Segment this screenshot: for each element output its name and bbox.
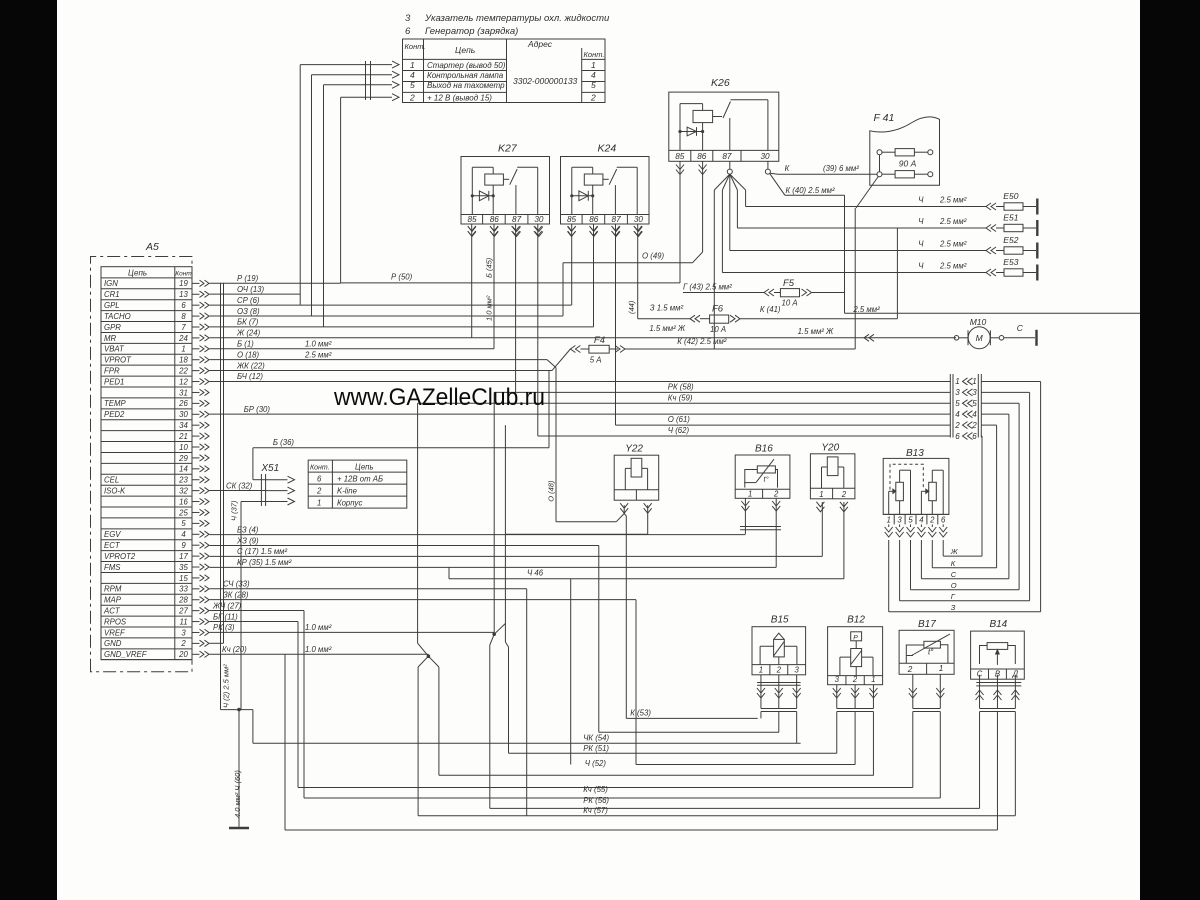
A5 row 7 GPR xyxy=(101,321,192,323)
wire RK(51) to B12.3 xyxy=(509,752,837,754)
svg-text:ОЧ (13): ОЧ (13) xyxy=(237,285,264,294)
svg-text:6: 6 xyxy=(941,516,946,525)
svg-text:Конт.: Конт. xyxy=(405,42,426,51)
connector tick marks top table xyxy=(365,61,367,100)
svg-text:Цепь: Цепь xyxy=(355,463,374,472)
injector Y20 plunger xyxy=(827,457,838,476)
wire to B14.B xyxy=(285,829,997,831)
svg-text:VPROT: VPROT xyxy=(104,356,132,365)
resistor E51 xyxy=(986,225,991,232)
svg-text:1.0 мм²: 1.0 мм² xyxy=(305,645,332,654)
fuse box F41 xyxy=(870,117,940,186)
svg-text:PED2: PED2 xyxy=(104,410,125,419)
wire BR (30) to connector pin4 xyxy=(210,413,951,415)
svg-text:1.0 мм²: 1.0 мм² xyxy=(485,295,494,321)
svg-text:2: 2 xyxy=(971,421,977,430)
svg-text:5: 5 xyxy=(972,399,977,408)
wire KCh(59) xyxy=(418,402,951,404)
wire fan to E50 xyxy=(745,190,747,207)
relay K24 switch contact xyxy=(603,178,609,180)
svg-text:2: 2 xyxy=(852,675,858,684)
svg-text:86: 86 xyxy=(589,215,599,224)
svg-text:K26: K26 xyxy=(711,77,730,89)
fuse F6 xyxy=(710,315,729,323)
svg-text:Корпус: Корпус xyxy=(337,499,362,508)
A5 row 4 EGV xyxy=(101,528,192,530)
relay K27 coil xyxy=(485,174,504,185)
wire G(43) to F5 xyxy=(683,292,764,294)
sensor B16 pin arrows xyxy=(741,501,749,506)
wire node leg to B14.C xyxy=(490,634,494,645)
ground symbol xyxy=(229,827,249,830)
wire Y22.2 drop xyxy=(647,505,649,534)
svg-text:B12: B12 xyxy=(847,615,865,626)
svg-text:10: 10 xyxy=(179,443,188,452)
svg-text:Кч (57): Кч (57) xyxy=(583,806,608,815)
A5 row 6 GPL xyxy=(101,299,192,301)
wire to right bar y313 xyxy=(845,312,1141,314)
svg-text:Р: Р xyxy=(853,635,858,642)
A5 row 16 blank xyxy=(101,495,192,497)
wire Ch(62) xyxy=(538,435,951,437)
sensor B14 box xyxy=(971,631,1025,679)
wire B13.1 to riser Z xyxy=(888,540,890,612)
wire OZ (8) to relay K26.86 net xyxy=(210,315,564,317)
X51 wires and arrows xyxy=(253,479,266,481)
wire SCh drop to B14.D wire xyxy=(526,589,528,816)
svg-text:1.0 мм²: 1.0 мм² xyxy=(305,340,332,349)
A5 row 26 TEMP xyxy=(101,397,192,399)
A5 row 32 ISO-K xyxy=(101,484,192,486)
svg-text:СР (6): СР (6) xyxy=(237,296,260,305)
svg-text:10 А: 10 А xyxy=(782,299,798,308)
injector Y20 pin arrows xyxy=(816,502,824,507)
ground junction xyxy=(237,708,241,712)
svg-text:B15: B15 xyxy=(771,615,789,626)
wire S (17) to Y20.1 xyxy=(210,555,823,557)
wire P(50) horizontal xyxy=(341,282,680,284)
svg-text:TEMP: TEMP xyxy=(104,399,126,408)
svg-text:B14: B14 xyxy=(989,619,1007,630)
svg-text:K24: K24 xyxy=(598,143,617,155)
relay K26 pin85 arrow xyxy=(676,165,684,170)
svg-text:Кч (59): Кч (59) xyxy=(668,394,693,403)
svg-text:ACT: ACT xyxy=(103,607,121,616)
relay K24 diode xyxy=(572,195,593,197)
svg-text:4: 4 xyxy=(919,516,924,525)
svg-text:Ж (24): Ж (24) xyxy=(236,329,261,338)
wire K24.85 drop to SR(6) xyxy=(571,224,573,305)
right connector outgoing wires xyxy=(981,380,1040,382)
node K26 pin 87 xyxy=(729,161,731,169)
wire BK (7) to K24.86 xyxy=(210,326,594,328)
B13 internal wires left xyxy=(888,491,890,514)
svg-text:12: 12 xyxy=(179,377,188,386)
A5 row 11 RPOS xyxy=(101,615,192,617)
svg-text:Р (50): Р (50) xyxy=(391,273,413,282)
ground lead wire xyxy=(238,710,240,827)
nested riser 1 xyxy=(1040,381,1042,611)
X51 table xyxy=(308,460,407,508)
svg-text:B16: B16 xyxy=(755,444,773,455)
A5 row 21 blank xyxy=(101,430,192,432)
wire Y20.2 drop xyxy=(843,502,845,579)
junction RK(3) node xyxy=(492,632,496,636)
wire Y22.2 horizontal xyxy=(505,533,647,535)
wire ZK (28) to B12.2 xyxy=(210,599,637,601)
wire K27.85 drop to Zh(24) xyxy=(471,224,473,338)
relay K24 coil xyxy=(584,174,603,185)
wire into top table row 5 xyxy=(324,84,393,86)
wire K(39) from K26.30 to F41 xyxy=(770,173,778,174)
wire XZ drop to B15.2 xyxy=(598,545,600,732)
nested riser 6 xyxy=(981,436,983,556)
injector Y22 pin arrows xyxy=(620,503,628,508)
svg-text:19: 19 xyxy=(179,279,188,288)
wire B(36) xyxy=(253,447,549,449)
svg-text:7: 7 xyxy=(181,323,186,332)
svg-text:1: 1 xyxy=(759,665,763,674)
sensor B16 thermistor xyxy=(757,466,775,473)
wire F41 to K42 riser xyxy=(856,177,878,209)
sensor B15 pressure symbol xyxy=(774,633,785,639)
wire B16.1 drop xyxy=(744,498,746,534)
svg-text:1: 1 xyxy=(955,377,959,386)
K26.87 fan wires xyxy=(714,174,730,190)
vertical wire table row5 to BK(7) xyxy=(323,85,325,327)
wire O48 horizontal to Y22.1 xyxy=(556,521,616,523)
svg-text:+ 12 В (вывод 15): + 12 В (вывод 15) xyxy=(427,93,492,102)
injector Y20 box xyxy=(810,454,855,499)
svg-text:33: 33 xyxy=(179,585,188,594)
vertical wire table row2 to P(50) xyxy=(340,97,342,283)
svg-text:Ч 46: Ч 46 xyxy=(527,569,544,578)
svg-text:5: 5 xyxy=(955,399,960,408)
svg-text:8: 8 xyxy=(181,312,186,321)
A5 row 25 blank xyxy=(101,506,192,508)
A5 row 5 blank xyxy=(101,517,192,519)
svg-text:М: М xyxy=(976,333,984,343)
wire RK58 riser from RK3 node xyxy=(493,392,495,634)
A5 row 33 RPM xyxy=(101,582,192,584)
svg-text:2.5 мм²: 2.5 мм² xyxy=(852,305,880,314)
svg-text:E50: E50 xyxy=(1003,191,1018,201)
wire fan to E52 xyxy=(729,190,731,251)
fuse F41 lower xyxy=(877,172,882,177)
wire O(48) drop from O(18) xyxy=(555,368,557,522)
svg-text:4: 4 xyxy=(181,530,186,539)
svg-text:1: 1 xyxy=(871,675,875,684)
svg-text:ХЗ (9): ХЗ (9) xyxy=(236,536,259,545)
wire ZK drop to B12.2 xyxy=(635,600,637,765)
svg-text:1: 1 xyxy=(972,377,976,386)
sensor B17 box xyxy=(899,630,954,674)
svg-text:30: 30 xyxy=(534,215,544,224)
wire Y20.1 drop xyxy=(821,502,823,556)
svg-text:FPR: FPR xyxy=(104,366,120,375)
wire B36 drop to X51 pin6 xyxy=(252,448,254,480)
wire K24.30 drop to Z(44) fuse F6 xyxy=(637,224,639,319)
nested riser 3 xyxy=(1029,392,1031,600)
right connector body xyxy=(949,374,951,438)
wire Y22.1 drop to K(53) xyxy=(623,505,625,513)
svg-text:35: 35 xyxy=(179,563,188,572)
svg-text:t°: t° xyxy=(764,475,769,484)
svg-text:FMS: FMS xyxy=(104,563,121,572)
svg-text:1: 1 xyxy=(181,345,185,354)
svg-text:6: 6 xyxy=(972,432,977,441)
A5 row 1 VBAT xyxy=(101,342,192,344)
A5 row 18 VPROT xyxy=(101,353,192,355)
wire K(42) F4 to F41 xyxy=(625,348,855,350)
svg-text:5: 5 xyxy=(410,80,415,90)
B13 internal wires right xyxy=(920,491,922,514)
svg-text:Ж: Ж xyxy=(950,547,959,556)
X51 connector ticks xyxy=(260,474,262,506)
svg-text:(39) 6 мм²: (39) 6 мм² xyxy=(823,164,859,173)
relay K24 box xyxy=(561,157,650,225)
relay K27 pin 85 arrow xyxy=(468,227,476,232)
svg-text:A5: A5 xyxy=(145,241,159,253)
svg-text:26: 26 xyxy=(178,399,188,408)
terminal bar E51 xyxy=(1036,220,1038,236)
svg-text:ISO-K: ISO-K xyxy=(104,487,126,496)
svg-text:Конт.: Конт. xyxy=(584,50,605,59)
svg-text:1: 1 xyxy=(748,490,752,499)
wire Ch(52) to B12.2 xyxy=(636,764,855,766)
wire into top table row 2 xyxy=(341,96,392,98)
sensor B17 pin wires xyxy=(912,674,914,708)
svg-text:3: 3 xyxy=(972,388,977,397)
svg-text:www.GAZelleClub.ru: www.GAZelleClub.ru xyxy=(333,384,545,411)
svg-text:MAP: MAP xyxy=(104,596,122,605)
A5 table bottom line xyxy=(101,659,192,661)
wire KR (35) to B16.2 xyxy=(210,566,777,568)
connector A5 outer box xyxy=(91,257,193,672)
terminal bar E53 xyxy=(1036,265,1038,281)
sensor B15 pin wires xyxy=(760,675,762,709)
relay K26 box xyxy=(669,92,779,161)
wire B13.6 to riser Zh xyxy=(942,540,944,556)
svg-text:30: 30 xyxy=(760,152,770,161)
svg-text:3: 3 xyxy=(897,516,902,525)
A5 row 12 PED1 xyxy=(101,375,192,377)
svg-text:IGN: IGN xyxy=(104,279,118,288)
svg-text:GPL: GPL xyxy=(104,301,120,310)
svg-text:28: 28 xyxy=(178,596,188,605)
svg-text:1: 1 xyxy=(887,516,891,525)
wire BG drop to B17.2 xyxy=(297,621,299,787)
svg-text:БР (30): БР (30) xyxy=(244,405,271,414)
wire X leg to B12.1 xyxy=(438,667,440,775)
svg-text:E52: E52 xyxy=(1003,235,1018,245)
wire O(49) horizontal xyxy=(563,262,693,264)
nested riser 2 xyxy=(996,425,998,568)
wire ChK(54) to B15.3 xyxy=(253,742,801,744)
svg-text:TACHO: TACHO xyxy=(104,312,131,321)
svg-text:2.5 мм²: 2.5 мм² xyxy=(304,350,332,359)
wire RK(56) to B17.1 xyxy=(304,797,940,799)
relay K27 switch contact xyxy=(503,178,509,180)
svg-text:23: 23 xyxy=(178,476,188,485)
svg-text:СК (32): СК (32) xyxy=(226,481,253,490)
svg-text:2: 2 xyxy=(773,490,779,499)
wire fan to K(42) xyxy=(713,190,715,349)
A5 row 10 blank xyxy=(101,441,192,443)
svg-text:86: 86 xyxy=(697,152,707,161)
svg-text:5: 5 xyxy=(181,519,186,528)
wire K(40) from K26.30 xyxy=(770,174,785,196)
svg-text:С (17) 1.5 мм²: С (17) 1.5 мм² xyxy=(237,547,288,556)
svg-text:22: 22 xyxy=(178,366,188,375)
wire F5 to K40 drop xyxy=(812,292,845,294)
svg-text:Кч (55): Кч (55) xyxy=(583,785,608,794)
svg-text:2.5 мм²: 2.5 мм² xyxy=(939,262,967,271)
resistor E53 xyxy=(986,269,991,276)
svg-text:30: 30 xyxy=(634,215,644,224)
svg-text:Ч: Ч xyxy=(918,262,924,271)
resistor E50 xyxy=(986,203,991,210)
wire B13.2 to riser K xyxy=(931,540,933,568)
svg-text:2: 2 xyxy=(907,665,913,674)
svg-text:Б (1): Б (1) xyxy=(237,340,254,349)
svg-text:Ч: Ч xyxy=(918,240,924,249)
sensor B14 potentiometer xyxy=(987,643,1008,650)
svg-text:Ч: Ч xyxy=(918,217,924,226)
wire BCh (12) to connector pin1 xyxy=(210,380,951,382)
svg-text:85: 85 xyxy=(675,152,685,161)
wire K27.30 drop to Ch(62) xyxy=(537,224,539,436)
terminal bar C xyxy=(1035,330,1037,346)
wire KCh (20) xyxy=(210,653,429,655)
wire BG (11) to B17.2 xyxy=(210,620,299,622)
svg-text:2: 2 xyxy=(316,487,322,496)
svg-text:10 А: 10 А xyxy=(710,325,726,334)
wire B (1) to K27.86 xyxy=(210,348,495,350)
relay K27 pin 30 arrow xyxy=(535,227,543,232)
svg-text:GPR: GPR xyxy=(104,323,121,332)
svg-text:25: 25 xyxy=(178,508,188,517)
svg-text:2: 2 xyxy=(929,516,935,525)
A5 row 29 blank xyxy=(101,451,192,453)
wire K26.85 drop to P(50) xyxy=(679,161,681,283)
svg-text:14: 14 xyxy=(179,465,188,474)
svg-text:ОЗ (8): ОЗ (8) xyxy=(237,307,260,316)
svg-text:GND_VREF: GND_VREF xyxy=(104,650,148,659)
nested riser 4 xyxy=(1008,414,1010,579)
svg-text:РК (51): РК (51) xyxy=(583,744,609,753)
B13 resistor right xyxy=(929,482,937,500)
svg-text:4.0 мм² Ч (60): 4.0 мм² Ч (60) xyxy=(233,770,242,818)
svg-text:MR: MR xyxy=(104,334,116,343)
svg-text:24: 24 xyxy=(178,334,188,343)
sensor B12 P box xyxy=(851,632,862,641)
svg-text:О: О xyxy=(951,581,957,590)
sensor B12 box xyxy=(828,627,883,685)
terminal bar E52 xyxy=(1036,243,1038,259)
svg-text:2: 2 xyxy=(590,92,596,102)
injector Y22 plunger xyxy=(631,458,642,477)
svg-text:Ч (52): Ч (52) xyxy=(585,759,607,768)
wire SCh (33) to B14.D xyxy=(210,588,527,590)
sensor B17 thermistor xyxy=(924,641,941,648)
svg-text:К: К xyxy=(951,559,956,568)
wire F41 terminals link xyxy=(879,155,881,172)
svg-text:E51: E51 xyxy=(1003,213,1018,223)
svg-text:3302-000000133: 3302-000000133 xyxy=(513,76,578,86)
wire K24.86 drop to BK(7) xyxy=(593,224,595,327)
sensor B16 box xyxy=(735,455,790,498)
relay K24 coil top link xyxy=(572,166,593,168)
svg-text:6: 6 xyxy=(181,301,186,310)
svg-text:ЗК (28): ЗК (28) xyxy=(223,590,249,599)
svg-text:86: 86 xyxy=(490,215,500,224)
wire OZ(8) riser xyxy=(562,263,564,316)
svg-text:B17: B17 xyxy=(918,619,936,630)
wire to B12.1 xyxy=(439,774,874,776)
wire K27.85 arrow xyxy=(468,226,476,231)
A5 row 20 GND_VREF xyxy=(101,648,192,650)
svg-text:87: 87 xyxy=(612,215,622,224)
wire KCh59 drop into X junction xyxy=(417,403,419,643)
relay K24 pin 85 arrow xyxy=(568,227,576,232)
svg-text:2: 2 xyxy=(180,639,186,648)
wire XZ (9) to B15.2 xyxy=(210,544,599,546)
svg-text:Стартер (вывод 50): Стартер (вывод 50) xyxy=(427,61,506,70)
svg-text:Цепь: Цепь xyxy=(455,45,475,55)
svg-text:F5: F5 xyxy=(783,278,795,289)
A5 row 31 blank xyxy=(101,386,192,388)
svg-text:29: 29 xyxy=(178,454,188,463)
relay K27 pin 87 arrow xyxy=(513,227,521,232)
svg-text:ЧК (54): ЧК (54) xyxy=(583,734,609,743)
svg-text:БЧ (12): БЧ (12) xyxy=(237,372,263,381)
wire B13.3 to riser G xyxy=(899,540,901,601)
svg-text:Ч (37): Ч (37) xyxy=(230,500,239,521)
svg-text:13: 13 xyxy=(179,290,188,299)
A5 row 8 TACHO xyxy=(101,310,192,312)
svg-text:90 А: 90 А xyxy=(899,159,917,169)
wire K27.86 drop to B(1) xyxy=(493,224,495,349)
svg-text:Б (36): Б (36) xyxy=(273,438,295,447)
svg-text:6: 6 xyxy=(955,432,960,441)
wire M10 to C terminal xyxy=(1004,337,1035,339)
wire ZhK (22) xyxy=(210,370,553,372)
svg-text:3: 3 xyxy=(794,665,799,674)
svg-text:Адрес: Адрес xyxy=(527,39,553,49)
nested riser 5 xyxy=(1018,403,1020,590)
sensor B14 upper connector marks xyxy=(976,682,1021,684)
A5 row 9 ECT xyxy=(101,539,192,541)
svg-text:PED1: PED1 xyxy=(104,377,124,386)
svg-text:16: 16 xyxy=(179,497,188,506)
svg-text:Конт.: Конт. xyxy=(310,465,330,472)
A5 row 28 MAP xyxy=(101,593,192,595)
svg-text:4: 4 xyxy=(410,70,415,80)
wire Z 1.5mm2 to F6 xyxy=(638,318,690,320)
svg-text:ECT: ECT xyxy=(104,541,121,550)
svg-text:RPOS: RPOS xyxy=(104,617,127,626)
resistor E52 xyxy=(986,247,991,254)
svg-text:E53: E53 xyxy=(1003,257,1018,267)
relay K26 switch contact xyxy=(713,116,722,118)
svg-text:Генератор (зарядка): Генератор (зарядка) xyxy=(425,26,518,37)
svg-text:F4: F4 xyxy=(594,335,605,346)
svg-text:Y20: Y20 xyxy=(821,442,839,453)
sensor B13 box xyxy=(883,458,949,514)
wire O61 drop to Y22.2 and RK3 junction xyxy=(504,425,506,642)
A5 row 22 FPR xyxy=(101,364,192,366)
